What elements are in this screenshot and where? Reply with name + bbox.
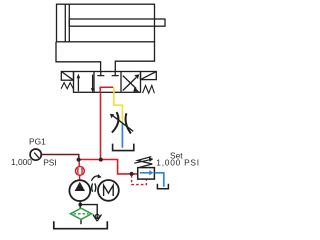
svg-text:PSI: PSI — [43, 158, 57, 168]
svg-text:1,000 PSI: 1,000 PSI — [156, 157, 200, 167]
svg-text:PG1: PG1 — [29, 137, 46, 147]
svg-text:1,000: 1,000 — [11, 157, 32, 167]
